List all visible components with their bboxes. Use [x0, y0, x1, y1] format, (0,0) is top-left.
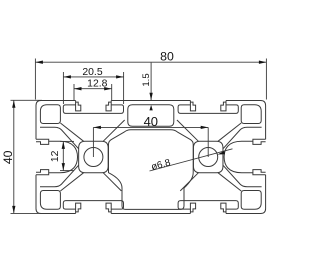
dim 40 center line	[93, 126, 208, 128]
dim 40 vertical arrow bottom	[12, 206, 15, 214]
profile outer outline left segment	[35, 106, 37, 140]
side slot lip hook top of right side slot	[253, 139, 266, 144]
svg-text:40: 40	[144, 114, 158, 129]
hole left ø6.8	[84, 148, 103, 167]
dim 12.8 extension right	[111, 84, 113, 100]
dim 40 vertical arrow top	[12, 100, 15, 108]
slot lip hook left of top-left T-slot	[76, 101, 81, 111]
web lower line top-left corner	[40, 127, 79, 149]
svg-text:12: 12	[50, 150, 61, 162]
T-slot cavity of top-left T-slot	[63, 105, 123, 114]
dim ø6.8 arrow	[217, 151, 225, 155]
side slot cavity of right side slot	[224, 141, 253, 172]
hole right ø6.8	[199, 148, 218, 167]
side slot cavity of left side slot	[49, 141, 78, 172]
dim 20.5 extension left	[62, 72, 64, 104]
slot lip hook left of bottom-right T-slot	[190, 203, 195, 213]
side slot lip hook top of left side slot	[36, 139, 49, 144]
side slot lip hook bottom of right side slot	[253, 170, 266, 175]
dim 1.5 arrow down	[149, 93, 152, 101]
svg-text:20.5: 20.5	[82, 67, 102, 78]
dim 12 arrow bottom	[62, 163, 65, 171]
dim 12 arrow top	[62, 141, 65, 149]
dim 12 line	[62, 141, 64, 170]
web inner line left boss toward bottom-center	[103, 173, 121, 191]
T-slot cavity of bottom-right T-slot	[178, 201, 238, 210]
web inner line right boss toward bottom-center	[180, 173, 198, 191]
dim 40 center extension left	[92, 127, 94, 157]
svg-text:40: 40	[1, 150, 15, 164]
web lower line top-right corner	[223, 127, 262, 149]
web upper line bottom-right corner	[218, 173, 241, 191]
dim 40 center extension right	[207, 127, 209, 157]
dim 40 vertical extension bottom	[11, 212, 43, 214]
dim 20.5 arrow left	[63, 75, 71, 78]
slot lip hook right of bottom-right T-slot	[221, 203, 226, 213]
dim 1.5 arrow up	[149, 105, 152, 111]
central octagon and bottom tub cavity	[109, 130, 194, 210]
svg-text:80: 80	[160, 49, 174, 63]
dim 1.5 leader line	[150, 63, 152, 101]
corner cavity bottom-right	[241, 191, 261, 210]
web lower line bottom-left corner	[40, 165, 79, 187]
dim 20.5 extension right	[123, 72, 125, 104]
corner cavity top-left	[40, 105, 60, 124]
left hole boss	[79, 141, 109, 172]
dim 12 extension bottom	[60, 170, 74, 172]
dim 80 line	[35, 61, 266, 63]
profile outer outline bottom-middle segment	[111, 213, 190, 215]
svg-text:1.5: 1.5	[141, 73, 152, 86]
slot lip hook right of top-right T-slot	[221, 101, 226, 111]
dim 20.5 line	[63, 76, 123, 78]
profile outer outline top-left segment	[36, 101, 76, 106]
dim 12.8 line	[74, 88, 112, 90]
profile outer outline top-right segment	[226, 101, 266, 140]
dim 80 arrow right	[259, 61, 267, 64]
dim 20.5 arrow right	[116, 75, 124, 78]
profile outer outline bottom-left segment	[36, 175, 76, 214]
slot lip hook right of top-left T-slot	[106, 101, 111, 111]
T-slot cavity of top-right T-slot	[178, 105, 238, 114]
dim 12.8 extension left	[73, 84, 75, 100]
dim 40 vertical extension top	[11, 99, 43, 101]
web upper line top-left corner	[60, 123, 83, 141]
profile outer outline top-middle segment	[111, 100, 190, 102]
profile outer outline right-bottom segment	[226, 175, 266, 214]
dim 80 arrow left	[35, 61, 43, 64]
slot lip hook left of bottom-left T-slot	[76, 203, 81, 213]
side slot lip hook bottom of left side slot	[36, 170, 49, 175]
dim 80 extension line left	[34, 59, 36, 100]
dim 80 extension line right	[265, 59, 267, 100]
dim 12.8 arrow left	[74, 87, 82, 90]
slot lip hook left of top-right T-slot	[190, 101, 195, 111]
web lower line bottom-right corner	[223, 165, 262, 187]
dim 40 vertical line	[13, 100, 15, 213]
corner cavity top-right	[241, 105, 261, 124]
slot lip hook right of bottom-left T-slot	[106, 203, 111, 213]
dim 40 center arrow right	[201, 126, 209, 129]
dim 40 center arrow left	[93, 126, 101, 129]
web inner line left boss toward top-center	[103, 120, 125, 141]
corner cavity bottom-left	[40, 191, 60, 210]
right hole boss	[193, 141, 223, 172]
svg-text:12.8: 12.8	[87, 79, 107, 90]
web inner line right boss toward top-center	[177, 120, 199, 141]
central top cavity	[128, 105, 174, 126]
dim 12 extension top	[60, 140, 74, 142]
T-slot cavity of bottom-left T-slot	[63, 201, 123, 210]
web upper line top-right corner	[218, 123, 241, 141]
dim ø6.8 leader line	[150, 149, 233, 171]
dim 12.8 arrow right	[104, 87, 112, 90]
web upper line bottom-left corner	[60, 173, 83, 191]
